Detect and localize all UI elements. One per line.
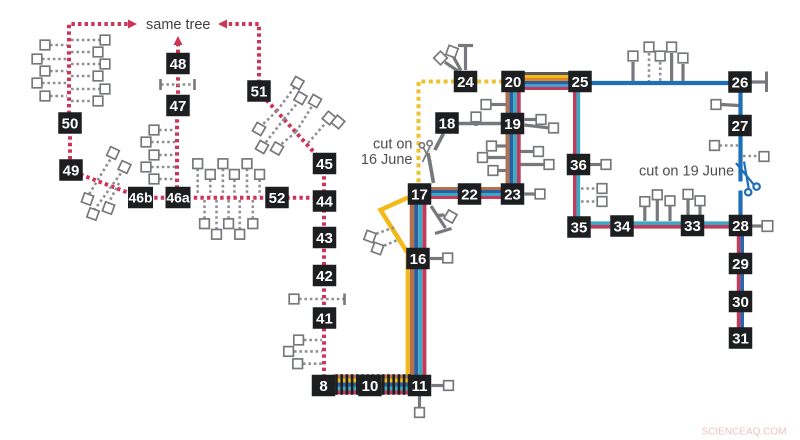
leaf stubs right of node 19: [525, 118, 537, 121]
node 18: [435, 112, 459, 134]
svg-text:46a: 46a: [166, 190, 190, 206]
svg-text:33: 33: [684, 218, 701, 235]
trunk bundle 20-25 yellow line: [502, 75, 591, 78]
node 22: [458, 183, 482, 205]
svg-text:46b: 46b: [128, 190, 152, 206]
svg-text:17: 17: [411, 186, 428, 203]
leaf stub right of node 28: [752, 224, 762, 227]
svg-text:41: 41: [316, 310, 333, 327]
node 28: [729, 215, 753, 237]
node 23: [501, 183, 525, 205]
svg-text:50: 50: [62, 115, 79, 132]
svg-text:19: 19: [504, 116, 521, 133]
leaf stubs crossing 49-46b diagonal: [88, 155, 113, 196]
leaf stub dotted right below node 27: [743, 155, 759, 158]
svg-text:29: 29: [732, 256, 749, 273]
blue link 26-27 down to cut: [738, 82, 742, 182]
leaf square on 18-19 link: [474, 121, 477, 126]
svg-text:16 June: 16 June: [361, 152, 413, 168]
trunk bundle 23-17 teal line: [415, 193, 513, 196]
node 44: [313, 190, 337, 212]
svg-text:34: 34: [614, 218, 631, 235]
leaf stubs above 46a-52 link: [196, 169, 199, 196]
node 24: [454, 71, 478, 93]
trunk 35-28 crimson line: [579, 225, 740, 229]
red dotted link 51-45: [262, 95, 321, 160]
leaf diamonds near node 45 top: [308, 122, 327, 144]
node 31: [729, 327, 753, 349]
trunk bundle 20-23 teal line: [513, 81, 517, 194]
node 48: [166, 53, 190, 75]
trunk 28-31 blue line: [740, 226, 744, 348]
leaf stub with crossbar from node 17 bottom: [431, 206, 446, 228]
trunk bundle 23-17 brown line: [415, 187, 513, 190]
svg-text:23: 23: [504, 186, 521, 203]
red dotted link 45-44-43-42-41-8: [322, 163, 326, 384]
trunk bundle 20-25 crimson line: [502, 87, 591, 90]
leaf stub diamond above node 24: [445, 62, 458, 71]
leaf stubs on 51-45 diagonal upper side: [277, 87, 295, 112]
node 33: [681, 215, 705, 237]
dashed band 8-11 crimson line: [332, 391, 410, 395]
svg-text:20: 20: [505, 74, 522, 91]
trunk bundle 20-25 orange line: [502, 78, 591, 81]
svg-text:43: 43: [316, 230, 333, 247]
trunk 25-35 crimson line: [573, 81, 577, 227]
leaf stub right of node 23: [525, 192, 536, 195]
trunk bundle 23-17 crimson line: [415, 196, 513, 199]
trunk bundle 20-25 dark blue line: [502, 81, 591, 84]
leaf stub dotted left below node 27: [720, 144, 739, 147]
leaf stub diagonal square above node 24: [454, 57, 462, 71]
svg-text:44: 44: [316, 193, 333, 210]
gray cut link 18 to 17 upper segment: [435, 134, 444, 151]
red dotted link top-left: node 50 up and right to same-tree arrow: [69, 24, 128, 114]
node 8: [312, 375, 336, 397]
svg-text:35: 35: [571, 219, 588, 236]
arrowhead same tree right: [218, 20, 227, 29]
node 36: [567, 154, 591, 176]
node 30: [729, 291, 753, 313]
trunk 28-31 crimson line: [737, 226, 741, 348]
dashed band 8-11 black tie bars: [335, 374, 410, 395]
leaf stub below node 11: [418, 396, 421, 408]
node 51: [247, 80, 271, 102]
svg-text:cut on: cut on: [373, 137, 413, 153]
svg-text:47: 47: [170, 98, 187, 115]
red dotted link 47-46a: [175, 106, 179, 196]
red dotted link top-right: node 51 up and left to same-tree arrow: [227, 24, 259, 83]
dashed band 8-11 teal line: [332, 387, 410, 391]
dashed band 8-11 dark blue line: [332, 383, 410, 387]
svg-text:11: 11: [412, 378, 428, 395]
gray link 18-19: [458, 122, 502, 126]
red dotted link 46b-46a-52-44: [141, 196, 324, 200]
red dotted link 49-46b: [74, 172, 138, 197]
leaf stub row left of node 50 line: [50, 44, 67, 47]
svg-text:SCIENCEAQ.COM: SCIENCEAQ.COM: [702, 427, 787, 438]
svg-text:30: 30: [732, 294, 749, 311]
leaf stub above node 19 left: [491, 103, 506, 106]
dashed band 8-11 yellow line: [332, 379, 410, 383]
svg-text:same tree: same tree: [146, 17, 210, 33]
svg-text:31: 31: [732, 330, 749, 347]
node 19: [501, 113, 525, 135]
leaf stubs dotted below yellow link near 16: [374, 228, 394, 235]
node 52: [265, 187, 289, 209]
svg-text:45: 45: [316, 156, 333, 173]
yellow line joining bundle below node 16: [406, 255, 410, 390]
leaf stub upper left of node 27: [721, 105, 739, 106]
node 43: [313, 227, 337, 249]
leaf stubs above nodes 33-34 link: [643, 206, 646, 221]
trunk bundle 17-11 brown line: [410, 188, 415, 390]
node 29: [729, 253, 753, 275]
node 11: [408, 375, 432, 397]
trunk 25-35 teal line: [577, 81, 581, 227]
svg-text:8: 8: [319, 378, 327, 395]
trunk bundle 17-11 teal line: [418, 188, 422, 390]
red dotted link 48-47: [176, 64, 180, 106]
node 50: [58, 112, 82, 134]
leaf stub right of node 16: [430, 257, 443, 260]
svg-text:25: 25: [572, 74, 589, 91]
svg-text:36: 36: [570, 157, 587, 174]
node 45: [313, 153, 337, 175]
blue link 25-26: [591, 81, 740, 85]
leaf stubs left of trunk between 19 and 23: [497, 144, 506, 147]
red dotted arrow above node 48: [176, 44, 180, 53]
leaf crossbar above node 41: [299, 298, 344, 301]
trunk bundle 23-17 dark blue line: [415, 190, 513, 193]
trunk bundle 20-23 brown line: [505, 81, 509, 194]
node 27: [728, 115, 752, 137]
trunk bundle 20-25 gray line: [502, 72, 591, 75]
red dotted link 50-49: [68, 123, 72, 170]
leaf stubs above blue link 25-26: [631, 62, 634, 81]
svg-text:22: 22: [461, 186, 478, 203]
node 25: [568, 71, 592, 93]
scissors icon 19 June cut: [736, 162, 760, 196]
leaf stub right of node 11: [432, 384, 445, 387]
leaf stubs on 51-45 diagonal lower side: [261, 111, 277, 126]
yellow dotted link 24-20: [477, 80, 503, 84]
svg-text:27: 27: [732, 118, 749, 135]
svg-text:cut on 19 June: cut on 19 June: [639, 164, 734, 180]
node 20: [501, 71, 525, 93]
scissors icon 16 June cut: [419, 141, 432, 162]
svg-text:49: 49: [63, 162, 80, 179]
yellow dotted link 24 west then south to 17: [419, 82, 456, 185]
leaf stubs below 46a-52 link: [203, 200, 206, 219]
node 47: [166, 95, 190, 117]
leaf stubs left of 47-46a line: [159, 129, 175, 132]
node 46a: [166, 187, 191, 209]
svg-text:16: 16: [410, 251, 427, 268]
leaf stubs right of trunk between 19 and 23: [521, 150, 534, 153]
node 46b: [128, 187, 153, 209]
node 49: [59, 159, 83, 181]
leaf stubs dotted below node 36: [581, 187, 597, 190]
svg-text:26: 26: [732, 74, 749, 91]
gray cut link 18 to 17 lower segment: [428, 153, 434, 183]
leaf stub row right of node 50 line: [71, 39, 100, 42]
leaf stub vertical with T above node 24: [464, 46, 467, 70]
node 34: [610, 215, 634, 237]
trunk bundle 20-25 light blue line: [502, 84, 591, 87]
node 35: [567, 216, 591, 238]
node 41: [313, 307, 337, 329]
leaf crossbar between 48 and 47: [161, 83, 194, 86]
leaf stubs left of red line above node 8: [304, 339, 322, 342]
yellow solid link 17-16: [381, 198, 410, 257]
svg-text:48: 48: [170, 56, 187, 73]
node 42: [313, 265, 337, 287]
trunk bundle 20-23 crimson line: [517, 81, 521, 194]
leaf stub right of node 36: [590, 163, 601, 166]
arrowhead same tree left: [128, 20, 137, 29]
node 17: [408, 183, 432, 205]
dashed band 8-11 brown line: [332, 375, 410, 379]
trunk bundle 17-11 crimson line: [422, 188, 426, 390]
trunk bundle 20-23 dark blue line: [509, 81, 513, 194]
svg-text:10: 10: [362, 378, 379, 395]
trunk bundle 17-11 dark blue line: [414, 188, 418, 390]
node 16: [406, 248, 430, 270]
svg-text:24: 24: [457, 74, 474, 91]
svg-text:42: 42: [316, 268, 333, 285]
trunk 35-28 teal line: [579, 221, 740, 225]
blue link cut to 28: [738, 191, 742, 227]
svg-text:28: 28: [732, 218, 749, 235]
svg-text:18: 18: [439, 115, 456, 132]
node 26: [728, 71, 752, 93]
svg-text:51: 51: [251, 83, 268, 100]
node 10: [358, 375, 382, 397]
svg-text:52: 52: [269, 190, 286, 207]
leaf stub with T right of node 26: [752, 80, 767, 83]
